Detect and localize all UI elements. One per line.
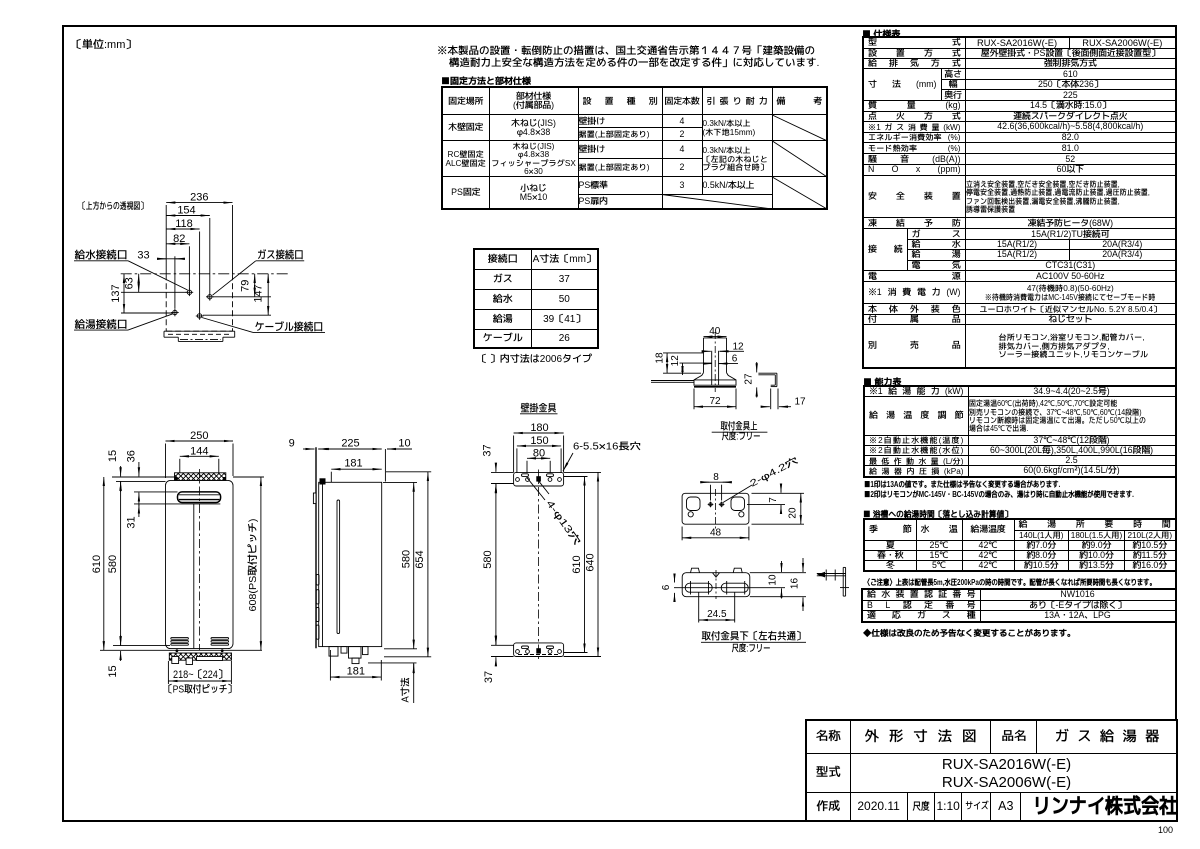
svg-text:10: 10 bbox=[766, 574, 780, 586]
dim 236 bbox=[166, 189, 232, 275]
dim 17 bbox=[762, 389, 806, 410]
dim 610 bbox=[88, 477, 262, 650]
svg-text:7: 7 bbox=[766, 497, 780, 503]
dim 10 bbox=[387, 435, 412, 451]
dim 118 bbox=[166, 215, 199, 313]
svg-text:〔上方からの透視図〕: 〔上方からの透視図〕 bbox=[79, 200, 147, 213]
upper fixture centerline bbox=[714, 332, 716, 392]
svg-text:610: 610 bbox=[88, 555, 104, 573]
fixing-methods table heading bbox=[441, 74, 531, 88]
svg-text:608(PS取付ピッチ): 608(PS取付ピッチ) bbox=[246, 519, 260, 612]
dim 63 bbox=[121, 274, 139, 293]
hole label 4-phi13 bbox=[527, 478, 584, 548]
lower fixture plate (plan) bbox=[682, 489, 749, 529]
front centerline bbox=[198, 469, 200, 651]
spec table bbox=[862, 36, 1177, 369]
label gas inlet bbox=[213, 247, 305, 296]
front exhaust slot bbox=[178, 492, 221, 504]
gas inlet point bbox=[206, 293, 214, 301]
label hot water outlet bbox=[74, 314, 173, 333]
svg-text:48: 48 bbox=[710, 525, 722, 539]
upper fixture angle piece bbox=[758, 373, 777, 386]
front pipe stubs bbox=[172, 657, 223, 665]
svg-text:2-φ4.2穴: 2-φ4.2穴 bbox=[748, 454, 802, 491]
svg-text:24.5: 24.5 bbox=[707, 607, 727, 621]
dim 72 bbox=[694, 389, 736, 410]
svg-text:31: 31 bbox=[122, 516, 138, 528]
svg-text:33: 33 bbox=[137, 247, 149, 263]
label water inlet bbox=[74, 247, 188, 290]
dim 147 bbox=[203, 274, 271, 315]
remark slash wood-wall bbox=[772, 115, 827, 141]
side bottom pipes bbox=[329, 647, 368, 664]
svg-text:6-5.5×16長穴: 6-5.5×16長穴 bbox=[573, 440, 641, 454]
dim 640 bracket bbox=[564, 472, 601, 656]
remark slash PS bbox=[772, 177, 827, 209]
bath note bbox=[864, 576, 1200, 589]
bracket centerline bbox=[538, 470, 540, 660]
side back stubs bbox=[316, 574, 319, 639]
capacity notes bbox=[864, 480, 1200, 500]
dim 610 bracket bbox=[564, 477, 588, 653]
dim 6 strip bbox=[659, 577, 675, 600]
dim 33 bbox=[137, 247, 185, 309]
svg-text:6: 6 bbox=[659, 584, 673, 590]
dim 79 bbox=[236, 274, 254, 297]
fixing-methods table bbox=[441, 86, 828, 210]
svg-text:118: 118 bbox=[175, 215, 193, 231]
side wall notch bbox=[313, 493, 316, 504]
dim 20 bbox=[752, 493, 805, 524]
lower fixture side profile bbox=[817, 567, 849, 596]
svg-text:640: 640 bbox=[581, 553, 597, 571]
dim 82 bbox=[166, 230, 189, 289]
dim 218 bbox=[164, 661, 236, 697]
svg-text:36: 36 bbox=[122, 450, 138, 462]
bath-fill table heading bbox=[863, 508, 1029, 521]
svg-text:654: 654 bbox=[411, 550, 427, 568]
front bottom bracket bbox=[169, 649, 231, 660]
dim 36 bbox=[122, 450, 177, 506]
sheet number bbox=[1158, 823, 1173, 837]
svg-text:218~〔224〕: 218~〔224〕 bbox=[173, 666, 227, 682]
svg-text:580: 580 bbox=[104, 555, 120, 573]
svg-text:20: 20 bbox=[786, 507, 800, 519]
side wall line bbox=[315, 447, 317, 648]
remark slash RC-wall bbox=[772, 141, 827, 177]
A-dimension table bbox=[473, 248, 599, 349]
svg-text:80: 80 bbox=[533, 444, 545, 460]
installation note bbox=[437, 46, 819, 69]
svg-text:9: 9 bbox=[289, 435, 295, 451]
svg-text:6: 6 bbox=[732, 352, 738, 366]
dim A bbox=[368, 663, 417, 703]
svg-text:40: 40 bbox=[709, 324, 721, 338]
svg-text:82: 82 bbox=[173, 230, 185, 246]
svg-text:580: 580 bbox=[479, 550, 495, 568]
dim 24.5 bbox=[699, 592, 735, 623]
svg-text:147: 147 bbox=[250, 284, 266, 302]
front view body bbox=[166, 480, 234, 648]
A-dimension note bbox=[477, 352, 592, 367]
dim 7 bbox=[747, 486, 804, 511]
label cable bbox=[202, 318, 325, 335]
dim 12 left bbox=[668, 355, 712, 375]
svg-text:225: 225 bbox=[341, 435, 359, 451]
dim 181 top bbox=[331, 455, 381, 483]
dim 31 bbox=[122, 504, 178, 529]
side body bbox=[319, 482, 382, 646]
dim 144 bbox=[180, 442, 219, 473]
svg-text:15: 15 bbox=[104, 665, 120, 677]
wall bracket top strip bbox=[514, 472, 564, 486]
upper fixture left plate bbox=[651, 381, 694, 383]
dim 18 bbox=[652, 352, 703, 373]
dim 10 strip bbox=[766, 561, 782, 599]
lower fixture title bbox=[701, 630, 806, 656]
dim 37 bottom bbox=[480, 638, 514, 684]
dim 40 bbox=[704, 324, 727, 338]
svg-text:〔PS取付ピッチ〕: 〔PS取付ピッチ〕 bbox=[164, 683, 236, 697]
dim 15 top bbox=[104, 450, 175, 492]
bath-fill table bbox=[863, 518, 1177, 572]
dim 250 bbox=[166, 427, 234, 478]
dim 37 top bbox=[479, 444, 514, 491]
front bottom vents bbox=[171, 638, 229, 646]
hole label 2-phi4.2 bbox=[723, 454, 801, 503]
lower fixture strip (front) bbox=[674, 568, 806, 599]
svg-text:181: 181 bbox=[344, 455, 362, 471]
svg-text:尺度:フリー: 尺度:フリー bbox=[722, 430, 761, 444]
dim 16 strip bbox=[787, 558, 803, 611]
svg-text:181: 181 bbox=[347, 663, 365, 679]
dim 80 bbox=[527, 444, 550, 473]
front panel seam bbox=[193, 504, 195, 648]
capacity table bbox=[863, 385, 1177, 478]
svg-text:72: 72 bbox=[709, 394, 721, 408]
svg-text:15: 15 bbox=[104, 450, 120, 462]
dim 154 bbox=[166, 202, 210, 294]
svg-text:給水接続口: 給水接続口 bbox=[75, 247, 128, 263]
side front lip bbox=[384, 449, 386, 482]
svg-text:63: 63 bbox=[121, 277, 137, 289]
side top hook bbox=[320, 478, 326, 484]
dim 15 bottom bbox=[104, 635, 121, 678]
hot water outlet point bbox=[171, 309, 179, 317]
dim 580 left bbox=[104, 481, 170, 645]
certification table bbox=[861, 588, 1177, 623]
svg-text:ガス接続口: ガス接続口 bbox=[257, 247, 304, 263]
capacity table heading bbox=[863, 375, 902, 389]
dim 137 bbox=[107, 274, 288, 313]
upper fixture title bbox=[712, 420, 768, 444]
svg-text:16: 16 bbox=[787, 578, 801, 590]
front view top bracket bbox=[175, 473, 226, 481]
side louver slot bbox=[337, 500, 340, 634]
wall bracket bottom strip bbox=[514, 643, 564, 657]
svg-text:37: 37 bbox=[479, 444, 495, 456]
svg-text:137: 137 bbox=[107, 284, 123, 302]
wall bracket title bbox=[520, 402, 558, 416]
PS-door slash bbox=[662, 195, 772, 210]
dim 150 bbox=[517, 432, 561, 473]
dim 8 bbox=[702, 470, 730, 501]
water inlet point bbox=[186, 289, 194, 297]
dim 6 bbox=[705, 352, 738, 366]
dim 180 bbox=[514, 419, 564, 472]
svg-text:8: 8 bbox=[713, 470, 719, 484]
svg-text:27: 27 bbox=[742, 373, 756, 385]
svg-text:17: 17 bbox=[794, 395, 806, 409]
top view body (dashed) bbox=[166, 274, 232, 331]
dim 580 bracket bbox=[479, 484, 514, 646]
dim 27 bbox=[742, 362, 757, 398]
svg-text:A寸法: A寸法 bbox=[399, 678, 413, 703]
cable point bbox=[196, 312, 204, 320]
unit note bbox=[71, 36, 136, 53]
svg-text:尺度:フリー: 尺度:フリー bbox=[732, 642, 771, 656]
final note bbox=[863, 627, 1076, 640]
svg-text:12: 12 bbox=[668, 355, 682, 367]
upper fixture profile bbox=[694, 338, 736, 387]
spec table heading bbox=[862, 27, 901, 41]
svg-text:18: 18 bbox=[652, 352, 666, 364]
dim 608 PS pitch bbox=[233, 477, 264, 650]
svg-text:144: 144 bbox=[190, 442, 208, 458]
dim 654 bbox=[384, 472, 431, 657]
dim 12 right bbox=[703, 339, 744, 353]
dim 48 bbox=[682, 525, 749, 540]
slot label bbox=[563, 440, 641, 471]
svg-text:10: 10 bbox=[398, 435, 410, 451]
top view back plate bbox=[164, 331, 235, 341]
dim 181 bottom bbox=[330, 650, 381, 681]
dim 225 bbox=[318, 435, 382, 451]
dim 9 bbox=[289, 435, 329, 451]
svg-text:4-φ13穴: 4-φ13穴 bbox=[543, 497, 584, 548]
svg-text:250: 250 bbox=[190, 427, 208, 443]
dim 580 side bbox=[383, 482, 417, 648]
svg-text:37: 37 bbox=[480, 671, 496, 683]
title block bbox=[805, 719, 1178, 822]
